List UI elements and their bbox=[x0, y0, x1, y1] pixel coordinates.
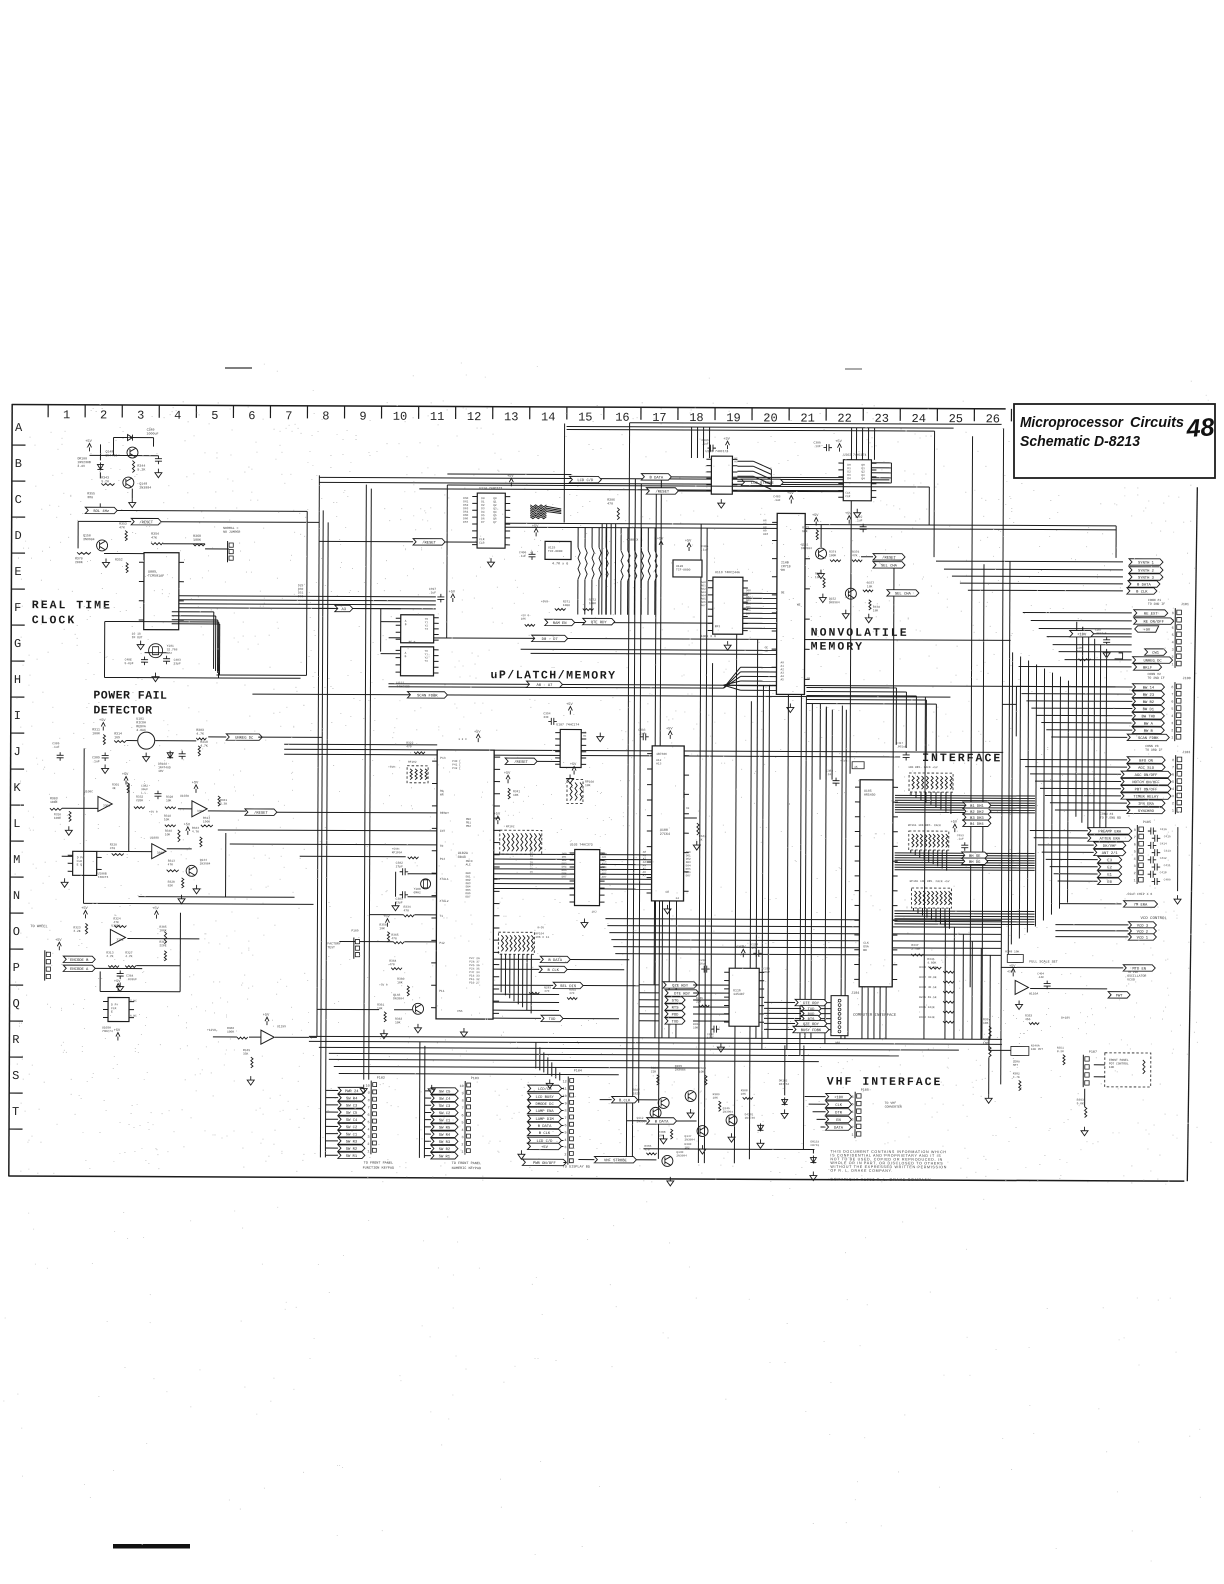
svg-text:O: O bbox=[13, 925, 20, 939]
svg-text:INTERFACE: INTERFACE bbox=[922, 752, 1002, 765]
svg-text:RP10A: RP10A bbox=[585, 781, 594, 784]
svg-text:P10 27: P10 27 bbox=[469, 982, 480, 985]
svg-text:SOL 4Hz: SOL 4Hz bbox=[93, 510, 109, 514]
svg-text:7: 7 bbox=[285, 409, 292, 423]
svg-text:1: 1 bbox=[851, 1134, 853, 1138]
svg-text:Q155: Q155 bbox=[675, 1065, 682, 1068]
svg-text:PB2: PB2 bbox=[466, 825, 471, 828]
svg-text:RE 0: RE 0 bbox=[409, 641, 416, 644]
svg-text:SW R2: SW R2 bbox=[439, 1148, 451, 1152]
svg-text:7: 7 bbox=[1172, 766, 1174, 770]
svg-text:+5V: +5V bbox=[81, 907, 88, 911]
svg-text:G: G bbox=[14, 637, 21, 651]
svg-text:SCAN FDBK: SCAN FDBK bbox=[417, 694, 438, 698]
svg-text:+5V: +5V bbox=[494, 813, 501, 817]
svg-text:R376: R376 bbox=[852, 551, 859, 554]
svg-text:10K: 10K bbox=[983, 1022, 989, 1025]
svg-text:33F: 33F bbox=[543, 716, 549, 719]
svg-text:POWER FAIL: POWER FAIL bbox=[93, 689, 167, 702]
svg-text:J100: J100 bbox=[1182, 677, 1190, 681]
svg-text:R: R bbox=[12, 1033, 19, 1047]
svg-text:+10V: +10V bbox=[834, 1096, 844, 1100]
svg-text:XTAL2: XTAL2 bbox=[440, 900, 449, 903]
svg-text:SW C3: SW C3 bbox=[346, 1105, 358, 1109]
svg-text:C414: C414 bbox=[1160, 842, 1167, 845]
svg-text:Q152: Q152 bbox=[829, 598, 836, 601]
svg-text:P109: P109 bbox=[351, 930, 358, 933]
svg-text:47K: 47K bbox=[151, 536, 157, 540]
svg-text:WR: WR bbox=[440, 794, 444, 797]
svg-text:TO DISPLAY BD: TO DISPLAY BD bbox=[563, 1165, 590, 1169]
svg-text:470: 470 bbox=[644, 1148, 649, 1151]
svg-text:TIMER RELAY: TIMER RELAY bbox=[1133, 796, 1159, 800]
svg-text:T: T bbox=[12, 1105, 19, 1119]
svg-text:D67: D67 bbox=[463, 521, 468, 524]
svg-text:U115: U115 bbox=[548, 546, 555, 549]
svg-text:R313: R313 bbox=[106, 951, 113, 954]
svg-text:U103 74HC373: U103 74HC373 bbox=[570, 842, 593, 846]
svg-text:D Pr: D Pr bbox=[111, 1003, 118, 1006]
svg-text:C309: C309 bbox=[814, 442, 821, 445]
svg-text:2N3904: 2N3904 bbox=[675, 1069, 686, 1072]
svg-text:VCO CONTROL: VCO CONTROL bbox=[1140, 917, 1167, 921]
svg-text:8: 8 bbox=[565, 1110, 567, 1114]
svg-text:RE EXT: RE EXT bbox=[1144, 613, 1158, 617]
svg-text:Y100: Y100 bbox=[414, 888, 421, 891]
svg-text:1: 1 bbox=[63, 408, 70, 422]
svg-text:R323: R323 bbox=[73, 926, 80, 929]
svg-text:U1159: U1159 bbox=[277, 1025, 286, 1028]
svg-text:8: 8 bbox=[1134, 829, 1136, 833]
svg-text:100K: 100K bbox=[92, 731, 100, 735]
svg-text:4: 4 bbox=[1172, 788, 1174, 792]
svg-text:+12V0-: +12V0- bbox=[207, 1029, 218, 1032]
svg-text:100: 100 bbox=[693, 1027, 698, 1030]
svg-text:1: 1 bbox=[1134, 879, 1136, 883]
svg-text:U100A: U100A bbox=[111, 924, 120, 927]
svg-text:4.7K: 4.7K bbox=[125, 955, 132, 958]
svg-text:C416: C416 bbox=[1160, 828, 1167, 831]
svg-text:.01uF CHIP X 6: .01uF CHIP X 6 bbox=[1126, 892, 1153, 896]
svg-text:2.40K: 2.40K bbox=[911, 948, 920, 951]
svg-text:6: 6 bbox=[1172, 774, 1174, 778]
svg-text:456: 456 bbox=[1025, 1018, 1031, 1021]
svg-text:R338 40.5K: R338 40.5K bbox=[919, 986, 937, 989]
svg-text:8: 8 bbox=[368, 1099, 370, 1103]
svg-text:RP165 10K RES. PACK +5V: RP165 10K RES. PACK +5V bbox=[910, 880, 950, 883]
svg-text:SW C3: SW C3 bbox=[439, 1105, 451, 1109]
svg-text:D Pr: D Pr bbox=[77, 856, 84, 859]
svg-text:6: 6 bbox=[368, 1114, 370, 1118]
svg-text:220E: 220E bbox=[159, 944, 166, 947]
svg-text:M: M bbox=[13, 853, 20, 867]
svg-text:STG: STG bbox=[672, 1000, 680, 1004]
svg-text:R340 59.0K: R340 59.0K bbox=[919, 966, 937, 969]
svg-text:+5V: +5V bbox=[739, 946, 746, 950]
svg-text:C412: C412 bbox=[1160, 857, 1167, 860]
svg-text:RP161 10K RES. PACK: RP161 10K RES. PACK bbox=[908, 824, 941, 827]
svg-text:D7: D7 bbox=[481, 521, 485, 524]
svg-text:R320: R320 bbox=[166, 796, 173, 799]
svg-text:.1uF: .1uF bbox=[957, 838, 964, 841]
svg-text:C411: C411 bbox=[1164, 864, 1171, 867]
svg-text:8: 8 bbox=[462, 1100, 464, 1104]
svg-text:A: A bbox=[15, 421, 23, 435]
svg-text:10K: 10K bbox=[165, 833, 171, 836]
svg-text:SW C2: SW C2 bbox=[346, 1126, 358, 1130]
svg-text:+5V: +5V bbox=[685, 539, 692, 543]
svg-text:P14: P14 bbox=[440, 858, 446, 861]
svg-text:+5V: +5V bbox=[99, 719, 106, 723]
svg-text:OE: OE bbox=[781, 591, 785, 594]
svg-text:P13: P13 bbox=[440, 757, 446, 760]
svg-text:+5V0-: +5V0- bbox=[541, 600, 550, 603]
svg-text:9: 9 bbox=[368, 1092, 370, 1096]
svg-text:DN4402: DN4402 bbox=[105, 453, 117, 457]
svg-text:RF102: RF102 bbox=[408, 761, 417, 764]
svg-text:R378: R378 bbox=[873, 606, 880, 609]
svg-text:4399: 4399 bbox=[1007, 970, 1014, 973]
svg-text:10K: 10K bbox=[513, 794, 519, 797]
svg-text:/RESET: /RESET bbox=[655, 489, 669, 494]
svg-text:BFO ON: BFO ON bbox=[1139, 760, 1153, 764]
svg-text:R337 30.0K: R337 30.0K bbox=[919, 976, 937, 979]
svg-text:+5V: +5V bbox=[55, 939, 62, 943]
svg-text:+9V: +9V bbox=[1143, 629, 1151, 633]
svg-text:+5V: +5V bbox=[723, 438, 730, 442]
svg-text:C405: C405 bbox=[701, 545, 708, 548]
svg-text:5: 5 bbox=[564, 1132, 566, 1136]
svg-text:3: 3 bbox=[564, 1146, 566, 1150]
svg-text:+5V: +5V bbox=[263, 1014, 270, 1018]
svg-text:TXD: TXD bbox=[549, 1018, 557, 1022]
svg-text:4.7K: 4.7K bbox=[200, 744, 208, 748]
svg-text:C403: C403 bbox=[174, 659, 181, 662]
svg-text:TO FRONT PANEL: TO FRONT PANEL bbox=[364, 1162, 393, 1166]
svg-text:.032uF: .032uF bbox=[126, 978, 137, 981]
svg-text:REAL TIME: REAL TIME bbox=[32, 599, 112, 612]
svg-text:U162 74HC174: U162 74HC174 bbox=[843, 453, 866, 457]
svg-text:P105: P105 bbox=[1143, 821, 1151, 825]
svg-text:U107 74HC174: U107 74HC174 bbox=[556, 722, 579, 726]
svg-text:NOTCH ON/OFF: NOTCH ON/OFF bbox=[1132, 780, 1160, 785]
svg-text:48: 48 bbox=[1185, 413, 1216, 443]
svg-text:C394: C394 bbox=[543, 712, 550, 715]
svg-text:R374: R374 bbox=[829, 551, 836, 554]
svg-text:+5V: +5V bbox=[812, 514, 819, 518]
svg-text:D0 - D7: D0 - D7 bbox=[542, 638, 558, 642]
svg-text:10K: 10K bbox=[521, 618, 526, 621]
svg-text:+10V: +10V bbox=[1077, 633, 1087, 637]
svg-text:E2: E2 bbox=[1107, 866, 1112, 870]
svg-text:+5V: +5V bbox=[114, 1029, 121, 1033]
svg-text:CW1: CW1 bbox=[1152, 652, 1160, 656]
svg-text:+5V: +5V bbox=[570, 763, 577, 767]
svg-text:2: 2 bbox=[1172, 802, 1174, 806]
svg-text:C413: C413 bbox=[1164, 850, 1171, 853]
svg-text:200K: 200K bbox=[75, 560, 83, 564]
svg-text:4.7K x 6: 4.7K x 6 bbox=[552, 562, 568, 566]
svg-text:UNREG DC: UNREG DC bbox=[235, 737, 254, 741]
svg-text:SYNTH 2: SYNTH 2 bbox=[1138, 570, 1155, 574]
svg-text:18K: 18K bbox=[867, 585, 873, 588]
svg-text:100K: 100K bbox=[589, 602, 596, 605]
svg-text:SW C2: SW C2 bbox=[439, 1112, 451, 1116]
svg-text:NUMERIC KEYPAD: NUMERIC KEYPAD bbox=[452, 1167, 481, 1171]
svg-text:B4 DH4: B4 DH4 bbox=[970, 823, 984, 827]
svg-text:U1030: U1030 bbox=[180, 795, 189, 798]
svg-text:+5V: +5V bbox=[835, 440, 842, 444]
svg-text:R375: R375 bbox=[802, 526, 809, 529]
svg-text:5.6K: 5.6K bbox=[1077, 1102, 1084, 1105]
svg-text:R386: R386 bbox=[651, 1067, 658, 1070]
svg-text:HR5450: HR5450 bbox=[864, 793, 876, 797]
svg-text:R387: R387 bbox=[633, 1089, 640, 1092]
svg-text:6: 6 bbox=[462, 1114, 464, 1118]
svg-text:3: 3 bbox=[1134, 865, 1136, 869]
svg-text:XTAL1: XTAL1 bbox=[440, 878, 449, 881]
svg-text:Y3: Y3 bbox=[425, 628, 429, 631]
svg-text:R341: R341 bbox=[513, 790, 520, 793]
svg-text:P107: P107 bbox=[1089, 1051, 1097, 1055]
svg-text:10K: 10K bbox=[397, 981, 403, 984]
svg-text:10: 10 bbox=[366, 1085, 370, 1089]
svg-text:LCD BUSY: LCD BUSY bbox=[536, 1096, 555, 1100]
svg-text:10uF: 10uF bbox=[751, 947, 758, 950]
svg-text:RESET: RESET bbox=[440, 812, 449, 815]
svg-text:R301: R301 bbox=[112, 783, 119, 786]
svg-text:R313: R313 bbox=[168, 860, 175, 863]
svg-text:MTD EN: MTD EN bbox=[1132, 968, 1146, 972]
svg-text:2: 2 bbox=[100, 408, 107, 422]
svg-text:33pF: 33pF bbox=[396, 901, 403, 904]
svg-text:C309: C309 bbox=[702, 439, 709, 442]
svg-text:E: E bbox=[111, 1011, 113, 1014]
svg-text:47K: 47K bbox=[119, 525, 125, 529]
svg-text:ALE: ALE bbox=[466, 863, 471, 866]
svg-text:U1008: U1008 bbox=[150, 837, 159, 840]
svg-text:R334 324K: R334 324K bbox=[919, 1016, 935, 1019]
svg-text:10K POT: 10K POT bbox=[1031, 1048, 1043, 1051]
svg-text:10K: 10K bbox=[1109, 1066, 1115, 1069]
svg-text:1: 1 bbox=[1171, 737, 1173, 741]
svg-text:A0 - A7: A0 - A7 bbox=[536, 684, 552, 688]
svg-text:DN3904: DN3904 bbox=[801, 547, 812, 550]
svg-text:QTE RDY: QTE RDY bbox=[591, 621, 608, 625]
svg-text:D32: D32 bbox=[298, 595, 304, 598]
svg-text:DB7: DB7 bbox=[466, 895, 471, 898]
svg-text:VHF STROBE: VHF STROBE bbox=[604, 1159, 628, 1163]
svg-text:0+5V: 0+5V bbox=[537, 926, 544, 929]
svg-text:SEL CHA: SEL CHA bbox=[895, 593, 912, 597]
svg-text:19: 19 bbox=[530, 871, 534, 874]
svg-text:R332: R332 bbox=[136, 796, 143, 799]
svg-text:U118 74HC174: U118 74HC174 bbox=[705, 449, 728, 453]
svg-text:R328: R328 bbox=[110, 843, 117, 846]
svg-text:74HCT4: 74HCT4 bbox=[98, 876, 109, 879]
svg-text:3302: 3302 bbox=[116, 939, 123, 942]
svg-text:+5V: +5V bbox=[507, 475, 514, 479]
svg-text:CE: CE bbox=[765, 650, 769, 653]
svg-text:.1uF: .1uF bbox=[52, 746, 59, 749]
svg-text:Q151: Q151 bbox=[801, 543, 808, 546]
svg-text:.1uF: .1uF bbox=[855, 519, 862, 522]
svg-text:WE: WE bbox=[797, 603, 801, 606]
svg-text:TO 2ND IF: TO 2ND IF bbox=[1148, 602, 1165, 606]
svg-text:B CLK: B CLK bbox=[548, 969, 560, 973]
svg-text:2: 2 bbox=[461, 1143, 463, 1147]
svg-text:U113 74HC244A: U113 74HC244A bbox=[715, 570, 740, 574]
svg-text:A5: A5 bbox=[780, 678, 784, 681]
svg-text:.1uF: .1uF bbox=[813, 445, 820, 448]
svg-text:BW D1: BW D1 bbox=[1143, 708, 1155, 712]
svg-text:R317: R317 bbox=[203, 817, 210, 820]
svg-text:1B7306: 1B7306 bbox=[656, 753, 667, 756]
svg-text:INT: INT bbox=[440, 830, 446, 833]
svg-text:R331: R331 bbox=[220, 799, 227, 802]
svg-text:CLR: CLR bbox=[479, 542, 485, 545]
svg-text:P12: P12 bbox=[439, 942, 445, 945]
svg-text:H: H bbox=[14, 673, 21, 687]
svg-text:12: 12 bbox=[563, 1080, 567, 1084]
svg-text:MEMORY: MEMORY bbox=[811, 641, 864, 654]
svg-text:14: 14 bbox=[676, 897, 680, 900]
svg-text:Q7: Q7 bbox=[493, 521, 497, 524]
svg-text:3: 3 bbox=[1172, 795, 1174, 799]
svg-text:R324: R324 bbox=[113, 917, 120, 920]
svg-text:5: 5 bbox=[852, 1103, 854, 1107]
svg-text:+5V: +5V bbox=[184, 823, 191, 827]
svg-text:470: 470 bbox=[391, 937, 397, 940]
svg-text:J: J bbox=[14, 745, 21, 759]
svg-text:SYNCHRO: SYNCHRO bbox=[1138, 810, 1155, 814]
svg-text:Q144: Q144 bbox=[200, 859, 207, 862]
svg-text:D07: D07 bbox=[562, 876, 567, 879]
svg-text:R365: R365 bbox=[391, 934, 398, 937]
svg-text:+5V: +5V bbox=[541, 1146, 549, 1150]
svg-text:8: 8 bbox=[1172, 759, 1174, 763]
svg-text:10: 10 bbox=[563, 1095, 567, 1099]
svg-text:2N3904: 2N3904 bbox=[139, 486, 151, 490]
svg-text:C410: C410 bbox=[1160, 871, 1167, 874]
svg-text:+5V: +5V bbox=[951, 821, 958, 825]
svg-text:47K: 47K bbox=[168, 863, 174, 866]
svg-text:5.3K: 5.3K bbox=[220, 803, 227, 806]
svg-text:U105A: U105A bbox=[102, 1026, 111, 1029]
svg-text:3: 3 bbox=[367, 1136, 369, 1140]
svg-text:uP/LATCH/MEMORY: uP/LATCH/MEMORY bbox=[490, 669, 616, 683]
svg-text:.1uF: .1uF bbox=[92, 759, 100, 763]
svg-text:D: D bbox=[14, 529, 21, 543]
svg-text:U120: U120 bbox=[676, 565, 683, 568]
svg-text:82K: 82K bbox=[168, 884, 174, 887]
svg-text:+5V 0: +5V 0 bbox=[149, 811, 158, 814]
svg-text:Microprocessor: Microprocessor bbox=[1020, 414, 1124, 431]
svg-text:12: 12 bbox=[467, 410, 481, 424]
svg-text:P104: P104 bbox=[574, 1070, 582, 1074]
svg-text:220: 220 bbox=[696, 1001, 701, 1004]
svg-text:100K: 100K bbox=[193, 538, 201, 542]
svg-text:1K: 1K bbox=[854, 766, 858, 769]
svg-text:SW C5: SW C5 bbox=[439, 1091, 451, 1095]
svg-text:5: 5 bbox=[211, 409, 218, 423]
svg-text:C384: C384 bbox=[126, 975, 133, 978]
svg-text:6: 6 bbox=[1172, 627, 1174, 631]
svg-text:I: I bbox=[14, 709, 21, 723]
svg-text:U114 74HC373: U114 74HC373 bbox=[479, 486, 502, 490]
svg-text:10: 10 bbox=[460, 1085, 464, 1089]
svg-text:SET: SET bbox=[1013, 1064, 1018, 1067]
svg-text:C415: C415 bbox=[1164, 835, 1171, 838]
svg-text:4: 4 bbox=[1134, 858, 1136, 862]
svg-text:ANT 2/1: ANT 2/1 bbox=[1102, 851, 1119, 856]
svg-text:5.2K: 5.2K bbox=[137, 467, 145, 471]
svg-text:R372: R372 bbox=[589, 599, 596, 602]
svg-text:J104: J104 bbox=[851, 992, 859, 996]
svg-text:P41 [: P41 [ bbox=[452, 762, 461, 766]
svg-text:R327: R327 bbox=[125, 952, 132, 955]
svg-text:.1uF: .1uF bbox=[519, 555, 526, 558]
svg-text:CR733: CR733 bbox=[810, 1144, 819, 1147]
svg-text:PWR ON/OFF: PWR ON/OFF bbox=[533, 1161, 557, 1166]
svg-text:DMODE DC: DMODE DC bbox=[536, 1103, 555, 1107]
svg-text:PBT ON/OFF: PBT ON/OFF bbox=[1135, 787, 1159, 792]
svg-text:D4: D4 bbox=[847, 477, 851, 480]
svg-text:5_NC: 5_NC bbox=[130, 1000, 137, 1003]
svg-text:SW R3: SW R3 bbox=[439, 1141, 451, 1145]
svg-text:A07: A07 bbox=[602, 876, 607, 879]
svg-text:BD: BD bbox=[863, 949, 867, 952]
svg-text:PWR 24: PWR 24 bbox=[345, 1090, 359, 1094]
svg-text:5: 5 bbox=[1171, 708, 1173, 712]
svg-text:.1uF: .1uF bbox=[702, 443, 709, 446]
svg-text:IN OUT: IN OUT bbox=[132, 636, 143, 639]
svg-text:2N3904: 2N3904 bbox=[684, 1138, 695, 1141]
svg-text:SW C1: SW C1 bbox=[346, 1133, 358, 1137]
svg-text:IFN ERA: IFN ERA bbox=[1138, 803, 1155, 807]
svg-text:15: 15 bbox=[578, 411, 592, 425]
svg-text:4: 4 bbox=[852, 1111, 854, 1115]
svg-text:D87: D87 bbox=[686, 874, 691, 877]
svg-text:B DATA: B DATA bbox=[650, 476, 664, 480]
svg-text:Y101: Y101 bbox=[167, 645, 174, 648]
svg-text:2: 2 bbox=[851, 1126, 853, 1130]
svg-text:47K: 47K bbox=[852, 554, 858, 557]
svg-text:B CLK: B CLK bbox=[619, 1099, 631, 1103]
svg-text:R348: R348 bbox=[165, 830, 172, 833]
svg-text:10K: 10K bbox=[585, 784, 591, 787]
svg-text:2: 2 bbox=[564, 1153, 566, 1157]
svg-text:CONVERTER: CONVERTER bbox=[885, 1105, 902, 1109]
svg-text:TO F.END BD: TO F.END BD bbox=[1100, 816, 1121, 820]
svg-text:R334: R334 bbox=[403, 906, 410, 909]
svg-text:B CLK: B CLK bbox=[1136, 591, 1148, 595]
svg-text:5: 5 bbox=[461, 1122, 463, 1126]
svg-text:TXD: TXD bbox=[672, 1021, 680, 1025]
svg-text:2: 2 bbox=[1134, 872, 1136, 876]
svg-text:R345: R345 bbox=[927, 958, 934, 961]
svg-text:5: 5 bbox=[1172, 781, 1174, 785]
svg-text:R393: R393 bbox=[1077, 1099, 1084, 1102]
svg-text:+5V: +5V bbox=[122, 773, 129, 777]
svg-text:7: 7 bbox=[1134, 836, 1136, 840]
svg-text:TO WHEEL: TO WHEEL bbox=[30, 925, 47, 929]
svg-text:Q148: Q148 bbox=[393, 994, 400, 997]
svg-text:KHz: KHz bbox=[167, 652, 173, 655]
svg-text:L: L bbox=[13, 817, 20, 831]
svg-text:TEST: TEST bbox=[327, 945, 335, 949]
svg-text:B DATA: B DATA bbox=[1137, 584, 1151, 588]
